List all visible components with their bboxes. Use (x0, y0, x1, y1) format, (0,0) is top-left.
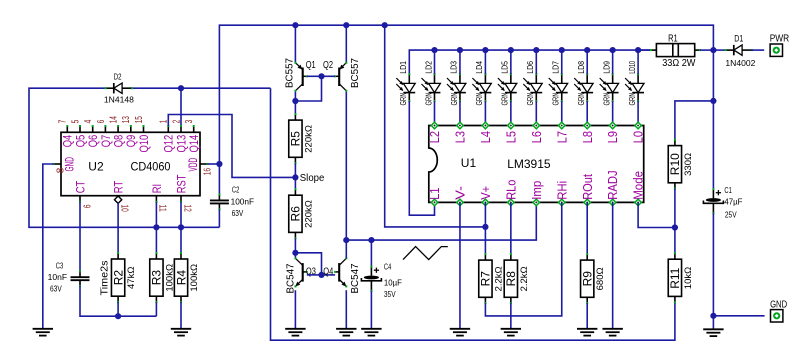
value R1 33ohm 2W (662, 58, 696, 69)
value C2 63V (232, 208, 244, 218)
svg-text:4: 4 (83, 119, 94, 123)
wire D1 to PWR terminal (751, 49, 764, 51)
wire LD10 anode (637, 50, 639, 74)
label C1 (724, 185, 732, 195)
svg-text:680Ω: 680Ω (595, 267, 606, 290)
resistor R5 (289, 113, 315, 164)
wire Mode pin jog to divider (638, 202, 675, 227)
junction GND node (710, 313, 716, 319)
svg-text:Q14: Q14 (187, 135, 201, 153)
svg-text:LD3: LD3 (449, 61, 459, 74)
svg-text:R6: R6 (289, 206, 303, 222)
label Time2s (98, 261, 110, 296)
wire LD10 cathode to pin (637, 101, 639, 125)
junction V+ riser (482, 224, 488, 230)
label Q2 (323, 59, 333, 71)
wire LD7 cathode to pin (561, 101, 563, 125)
junction D2 net / Q13 pin (178, 85, 184, 91)
ground RADJ (602, 329, 622, 336)
wire RST pin through reset net to R4 (180, 202, 182, 253)
svg-text:35V: 35V (384, 289, 396, 299)
wire C4 top (370, 240, 372, 267)
junction top rail / Q2 emitter (343, 22, 349, 28)
svg-text:Mode: Mode (631, 171, 646, 200)
svg-text:BC547: BC547 (350, 263, 361, 293)
wire U2 GND pin down (43, 164, 54, 329)
wire LD6 cathode to pin (535, 101, 537, 125)
LED LD8 GRN (574, 61, 593, 106)
svg-text:LD8: LD8 (576, 61, 586, 74)
svg-text:RADJ: RADJ (605, 170, 620, 199)
resistor R6 (289, 188, 315, 239)
svg-text:GRN: GRN (474, 93, 484, 106)
LED LD9 GRN (600, 61, 619, 106)
label C2 (232, 185, 240, 195)
value C4 35V (384, 289, 396, 299)
junction Q1 collector / R5 (292, 98, 298, 104)
wire LD1 cathode jog to L1 pin (409, 101, 434, 215)
wire RLo pin to R8 (510, 202, 512, 254)
svg-text:6: 6 (96, 119, 107, 123)
junction LED rail / LD4 (482, 47, 488, 53)
svg-text:LD6: LD6 (525, 61, 535, 74)
IC U1 LM3915 LED bar driver (427, 122, 646, 205)
diode D1 (725, 45, 754, 55)
wire LD8 cathode to pin (586, 101, 588, 125)
wire LD2 anode (434, 50, 436, 74)
svg-text:3: 3 (184, 119, 195, 123)
transistor Q3 (294, 257, 307, 287)
svg-text:Slope: Slope (300, 173, 325, 184)
svg-text:Time2s: Time2s (98, 261, 110, 296)
label D2 (114, 73, 122, 82)
svg-text:L6: L6 (529, 131, 544, 143)
svg-text:L1: L1 (427, 188, 442, 200)
wire Q3 collector (294, 253, 296, 258)
label BC547 Q3 (286, 263, 297, 293)
wire V+ pin to R7 (484, 202, 486, 254)
value 1N4002 (725, 58, 755, 68)
LED LD1 GRN (396, 61, 415, 106)
wire LD2 cathode to pin (434, 101, 436, 125)
resistor R2 (111, 252, 137, 303)
wire C2 bottom to reset net (218, 209, 220, 227)
wire LD5 anode (510, 50, 512, 74)
svg-text:V+: V+ (478, 186, 493, 200)
svg-text:U1: U1 (461, 156, 477, 170)
ground C4 (361, 329, 381, 336)
wire LD3 anode (459, 50, 461, 74)
svg-text:10kΩ: 10kΩ (683, 267, 694, 289)
wire slope node to R6 (294, 177, 296, 189)
wire +V top rail (219, 25, 713, 164)
wire LD3 cathode to pin (459, 101, 461, 125)
wire D2 anode net (130, 87, 271, 89)
wire Q4 emitter to ground (345, 290, 347, 329)
resistor R4 (174, 252, 200, 303)
junction imp net / Q2-Q4 collectors (343, 237, 349, 243)
svg-text:330Ω: 330Ω (683, 153, 694, 176)
LED LD10 GRN (625, 61, 644, 106)
svg-text:GRN: GRN (551, 93, 561, 106)
svg-text:RT: RT (112, 180, 126, 193)
value C1 47uF (724, 196, 742, 206)
svg-text:RI: RI (150, 184, 164, 193)
svg-text:LD10: LD10 (627, 61, 637, 74)
capacitor C2 (210, 194, 229, 211)
ground Q3 emitter (285, 329, 305, 336)
svg-text:25V: 25V (725, 209, 737, 219)
svg-text:L2: L2 (427, 131, 442, 143)
resistor R10 (668, 139, 694, 190)
wire main rail to R10 top (675, 101, 714, 140)
label D1 (734, 34, 743, 45)
svg-text:Q10: Q10 (137, 135, 151, 153)
label node Slope (300, 173, 325, 184)
terminal GND (770, 300, 787, 322)
wire LD9 anode (612, 50, 614, 74)
capacitor C1 (703, 188, 723, 214)
value 1N4148 (104, 95, 134, 105)
wire base node to collector node (295, 76, 321, 101)
svg-text:12: 12 (181, 205, 192, 213)
svg-text:D2: D2 (114, 73, 122, 82)
svg-text:LD7: LD7 (551, 61, 561, 74)
svg-text:C3: C3 (56, 261, 64, 271)
wire LD7 anode (561, 50, 563, 74)
diode D2 (105, 83, 134, 93)
wire R4 bottom to ground (180, 302, 182, 329)
svg-text:L7: L7 (554, 131, 569, 143)
value C1 25V (725, 209, 737, 219)
svg-text:GRN: GRN (576, 93, 586, 106)
svg-text:R10: R10 (668, 153, 682, 175)
wire Q12 pin to slope node (168, 115, 295, 178)
value C4 10uF (384, 277, 402, 287)
IC U2 CD4060 (53, 116, 214, 212)
wire LED rail to R1 (638, 49, 651, 51)
junction Q3/Q4 base tee (318, 272, 324, 278)
junction imp net / C4 (368, 237, 374, 243)
junction top rail / Q1 emitter (292, 22, 298, 28)
junction main riser / R10 (710, 98, 716, 104)
junction reset net / RST (178, 224, 184, 230)
svg-text:RLo: RLo (503, 180, 518, 200)
svg-text:R5: R5 (289, 131, 303, 147)
wire V- to ground (459, 202, 461, 328)
wire main vertical to C1 (712, 50, 714, 189)
wire RI pin through reset net to R3 (155, 202, 157, 253)
wire divider node to R11 (674, 228, 676, 254)
svg-text:2.2kΩ: 2.2kΩ (519, 266, 530, 291)
junction LED rail / LD6 (533, 47, 539, 53)
svg-text:14: 14 (109, 116, 120, 124)
value C3 63V (50, 283, 62, 293)
svg-text:C2: C2 (232, 185, 240, 195)
svg-text:CT: CT (73, 180, 87, 193)
junction LED rail / LD8 (584, 47, 590, 53)
svg-text:LD1: LD1 (398, 61, 408, 74)
svg-text:Q4: Q4 (323, 265, 333, 277)
wire LD8 anode (586, 50, 588, 74)
svg-text:5: 5 (70, 119, 81, 123)
svg-text:10µF: 10µF (384, 277, 402, 287)
wire LD9 cathode to pin (612, 101, 614, 125)
wire Q13 pin riser (180, 88, 182, 126)
terminal PWR (770, 34, 790, 57)
wire D2 cathode to reset net (29, 88, 219, 227)
transistor Q1 (294, 62, 307, 92)
LED LD7 GRN (549, 61, 568, 106)
junction R6 / Q3 collector (292, 250, 298, 256)
svg-text:33Ω 2W: 33Ω 2W (662, 58, 696, 69)
svg-text:GND: GND (770, 300, 787, 311)
svg-text:R8: R8 (504, 271, 518, 287)
svg-text:GRN: GRN (601, 93, 611, 106)
label Q4 (323, 265, 333, 277)
wire C4 bottom to ground (370, 291, 372, 329)
svg-text:GRN: GRN (449, 93, 459, 106)
wire CT pin to C3 (79, 202, 81, 271)
wire Q13 net down and along bottom to R11 (271, 88, 675, 340)
label Q1 (306, 59, 316, 71)
svg-text:11: 11 (157, 205, 168, 213)
label BC547 Q4 (350, 263, 361, 293)
svg-text:D1: D1 (734, 34, 743, 45)
wire rail to Q1 emitter (294, 25, 296, 63)
wire LD5 cathode to pin (510, 101, 512, 125)
wire Q2 base to base node (322, 75, 336, 77)
capacitor C4 (361, 266, 381, 292)
svg-text:100kΩ: 100kΩ (189, 264, 200, 292)
label C3 (56, 261, 64, 271)
svg-text:R11: R11 (668, 267, 682, 288)
junction LED rail / LD10 (635, 47, 641, 53)
label Q3 (306, 265, 316, 277)
junction top rail / V+ riser (382, 22, 388, 28)
wire RADJ to ground (612, 202, 614, 328)
svg-text:220kΩ: 220kΩ (303, 125, 314, 153)
svg-text:R7: R7 (479, 271, 493, 287)
wire R6 to Q3 collector node (294, 238, 296, 253)
resistor R11 (668, 252, 694, 303)
junction divider node Mode (672, 224, 678, 230)
wire main junction to D1 (713, 49, 725, 51)
svg-text:GRN: GRN (525, 93, 535, 106)
svg-text:2.2kΩ: 2.2kΩ (493, 266, 504, 291)
wire VDD junction down to C2 (218, 164, 220, 195)
svg-text:Q2: Q2 (323, 59, 333, 71)
svg-text:BC547: BC547 (286, 263, 297, 293)
junction Q1/Q2 base (318, 73, 324, 79)
ground R8 (501, 329, 521, 336)
svg-text:47kΩ: 47kΩ (126, 267, 137, 289)
svg-text:CD4060: CD4060 (131, 160, 171, 174)
wire Q2 collector down to imp net (345, 92, 347, 240)
junction LED rail / LD3 (457, 47, 463, 53)
LED LD3 GRN (447, 61, 466, 106)
wire VDD pin to junction (208, 163, 220, 165)
ground U2 GND (33, 329, 53, 336)
svg-text:RST: RST (174, 174, 188, 193)
svg-text:220kΩ: 220kΩ (303, 200, 314, 228)
wire RT pin to R2 (117, 203, 119, 253)
svg-text:LD9: LD9 (601, 61, 611, 74)
svg-text:100nF: 100nF (231, 197, 255, 207)
svg-text:Q1: Q1 (306, 59, 316, 71)
junction RC net / R2 (115, 313, 121, 319)
wire C3 bottom to RC net (80, 286, 156, 316)
wire Q1 collector down (294, 92, 296, 114)
svg-text:10: 10 (118, 205, 129, 213)
capacitor C3 (71, 270, 90, 287)
resistor R9 (581, 253, 607, 304)
svg-text:LD4: LD4 (474, 61, 484, 74)
value C2 100nF (231, 197, 255, 207)
junction node Slope (292, 174, 298, 180)
svg-text:2: 2 (171, 119, 182, 123)
wire Q3 emitter to ground (294, 290, 296, 329)
svg-text:8: 8 (55, 167, 66, 173)
wire Q3 base to tee (307, 274, 322, 276)
svg-text:10nF: 10nF (48, 272, 68, 282)
svg-text:PWR: PWR (770, 34, 790, 45)
svg-text:7: 7 (58, 119, 69, 123)
wire R7 bottom to RHi (485, 202, 561, 316)
wire Q4 collector to imp net (345, 240, 347, 258)
svg-text:C4: C4 (384, 261, 392, 271)
svg-text:1N4148: 1N4148 (104, 95, 134, 105)
svg-text:L0: L0 (631, 131, 646, 143)
resistor R1 (650, 44, 701, 57)
svg-text:R4: R4 (174, 270, 188, 286)
waveform symbol triangle wave (403, 247, 448, 260)
ground V- (450, 329, 470, 336)
transistor Q4 (334, 257, 347, 287)
svg-text:R1: R1 (668, 33, 678, 44)
junction main node after D1 (710, 47, 716, 53)
resistor R3 (150, 252, 176, 303)
svg-text:Imp: Imp (529, 181, 544, 200)
svg-text:L3: L3 (453, 131, 468, 143)
wire rail to V+ pin net (385, 25, 486, 227)
resistor R8 (504, 253, 530, 304)
wire tee to Q4 base (322, 274, 336, 276)
svg-text:GRN: GRN (627, 93, 637, 106)
svg-text:VDD: VDD (186, 158, 200, 172)
wire C1 bottom to GND node (712, 213, 714, 315)
wire R8 bottom to ground (510, 303, 512, 329)
ground main GND (703, 329, 723, 336)
wire imp net (346, 202, 536, 240)
label C4 (384, 261, 392, 271)
ground R9 (577, 329, 597, 336)
wire GND node to terminal (713, 315, 764, 317)
junction reset net / RI (153, 224, 159, 230)
svg-text:RHi: RHi (554, 181, 569, 200)
svg-text:L4: L4 (478, 131, 493, 143)
wire LD4 cathode to pin (484, 101, 486, 125)
label BC557 Q1 (285, 58, 296, 88)
svg-text:1N4002: 1N4002 (725, 58, 755, 68)
wire LED anode rail (409, 50, 651, 74)
ground R4 (171, 329, 191, 336)
svg-text:R9: R9 (581, 271, 595, 287)
wire LD6 anode (535, 50, 537, 74)
wire R3 bottom to RC net (155, 302, 157, 316)
wire Q3 collector node to base tee (295, 253, 321, 275)
junction LED rail / LD5 (508, 47, 514, 53)
wire LD4 anode (484, 50, 486, 74)
svg-text:L8: L8 (580, 131, 595, 143)
svg-text:63V: 63V (232, 208, 244, 218)
wire GND node to ground (712, 316, 714, 330)
svg-text:13: 13 (121, 116, 132, 124)
junction VDD / C2 / rail (216, 161, 222, 167)
junction LED rail / LD2 (431, 47, 437, 53)
resistor R7 (479, 253, 505, 304)
wire R5 to slope node (294, 163, 296, 177)
svg-text:V-: V- (453, 186, 468, 200)
wire ROut pin to R9 (586, 202, 588, 254)
svg-text:C1: C1 (724, 185, 732, 195)
svg-text:LD5: LD5 (500, 61, 510, 74)
wire R9 bottom to ground (586, 303, 588, 329)
svg-text:L5: L5 (503, 131, 518, 143)
svg-text:63V: 63V (50, 283, 62, 293)
svg-text:47µF: 47µF (724, 196, 742, 206)
junction LED rail / LD9 (610, 47, 616, 53)
value C3 10nF (48, 272, 68, 282)
svg-text:ROut: ROut (580, 174, 595, 200)
svg-text:BC557: BC557 (350, 58, 361, 88)
svg-text:U2: U2 (88, 160, 104, 174)
svg-text:GRN: GRN (500, 92, 510, 105)
svg-text:BC557: BC557 (285, 58, 296, 88)
svg-text:9: 9 (80, 205, 91, 209)
LED LD2 GRN (422, 61, 441, 106)
svg-text:LD2: LD2 (423, 61, 433, 74)
LED LD5 GRN (498, 61, 517, 106)
wire R1 to main junction (700, 49, 713, 51)
svg-text:R2: R2 (111, 270, 125, 286)
wire rail to Q2 emitter (345, 25, 347, 63)
svg-text:GRN: GRN (398, 93, 408, 106)
wire Q1 base to base node (307, 75, 322, 77)
wire R2 bottom to RC net (117, 302, 119, 316)
ground Q4 emitter (336, 329, 356, 336)
svg-text:L9: L9 (605, 131, 620, 143)
LED LD6 GRN (523, 61, 542, 106)
label R1 (668, 33, 678, 44)
junction LED rail / LD7 (559, 47, 565, 53)
svg-text:LM3915: LM3915 (507, 157, 551, 171)
wire R10 bottom to divider node (674, 189, 676, 228)
svg-text:R3: R3 (150, 270, 164, 286)
LED LD4 GRN (472, 61, 491, 106)
transistor Q2 (334, 62, 347, 92)
svg-text:15: 15 (134, 116, 145, 124)
svg-text:GRN: GRN (423, 93, 433, 106)
svg-text:16: 16 (202, 168, 213, 176)
label BC557 Q2 (350, 58, 361, 88)
